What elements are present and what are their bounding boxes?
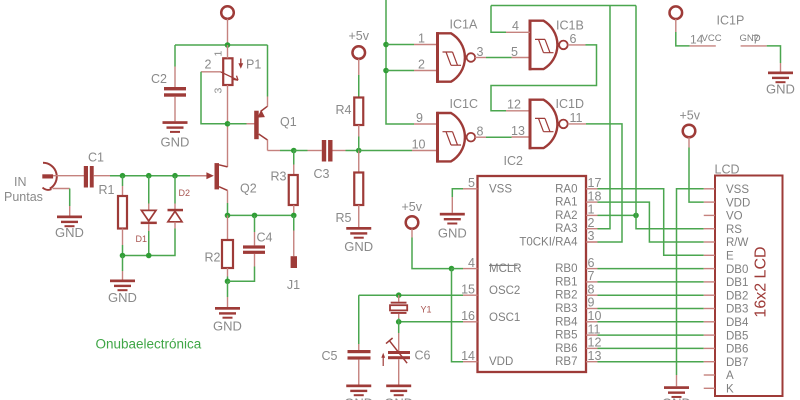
wire R4 to node <box>358 137 360 151</box>
pin IC1C input 10 <box>412 150 438 152</box>
junction diode node R1 <box>120 253 126 259</box>
connector X1 jack IN <box>42 163 56 190</box>
pin IC1P GND 7 <box>741 45 767 47</box>
wire D2 to node <box>123 229 176 256</box>
svg-text:8: 8 <box>588 282 595 296</box>
svg-text:VSS: VSS <box>726 184 749 196</box>
wire VSS to gnd <box>452 189 463 197</box>
pin IC1A input 1 <box>414 44 438 46</box>
pin R3 bottom <box>293 205 295 215</box>
wire RA2 branch <box>598 214 637 216</box>
wire bus to pin2 <box>386 70 414 72</box>
pin IC2 VDD 14 <box>463 361 478 363</box>
pin +5v MCLR <box>411 229 413 238</box>
svg-text:GND: GND <box>213 319 242 334</box>
pin R1 bottom <box>122 229 124 246</box>
wire MCLR net <box>412 238 452 269</box>
svg-text:A: A <box>726 370 734 382</box>
svg-text:3: 3 <box>588 229 595 243</box>
text LCD pin names <box>726 184 750 396</box>
svg-text:RA3: RA3 <box>555 223 577 235</box>
svg-text:R/W: R/W <box>726 237 749 249</box>
pin IC1B output 6 <box>568 44 586 46</box>
potentiometer P1 <box>221 58 239 85</box>
pin D1 bottom <box>148 224 150 231</box>
svg-text:VCC: VCC <box>702 33 722 44</box>
svg-text:13: 13 <box>511 124 525 138</box>
svg-text:DB5: DB5 <box>726 330 748 342</box>
wire RA1 to LCD R/W <box>598 202 704 242</box>
pin LCD A <box>704 374 715 376</box>
pin IC2 13 <box>586 361 598 363</box>
svg-text:3: 3 <box>477 45 484 59</box>
pin C4 top <box>254 232 256 245</box>
junction R4 node <box>356 148 362 154</box>
wire D2 drop <box>174 176 176 204</box>
svg-text:Onubaelectrónica: Onubaelectrónica <box>96 337 202 352</box>
diode D2 <box>168 209 184 222</box>
svg-text:OSC2: OSC2 <box>489 285 520 297</box>
svg-text:T0CKI/RA4: T0CKI/RA4 <box>519 237 578 249</box>
svg-text:5: 5 <box>468 176 475 190</box>
pin C3 right <box>333 150 346 152</box>
svg-text:R5: R5 <box>336 211 352 225</box>
pin P1 top <box>227 45 229 58</box>
pin LCD DB5 <box>704 334 715 336</box>
svg-text:DB4: DB4 <box>726 317 749 329</box>
pin LCD VO <box>704 214 715 216</box>
svg-text:RB7: RB7 <box>555 356 577 368</box>
capacitor C3 <box>322 140 333 162</box>
svg-text:16: 16 <box>461 309 475 323</box>
op-amp gate IC1A <box>437 32 476 83</box>
wire IC1B feedback loop <box>491 45 597 111</box>
svg-text:RB1: RB1 <box>555 276 577 288</box>
wire D1 to node <box>148 231 150 256</box>
pin R3 top <box>293 165 295 176</box>
op-amp gate IC1B <box>529 20 568 71</box>
svg-text:GND: GND <box>438 226 467 241</box>
label P1 with arrow <box>238 57 261 71</box>
pin IC2 3 <box>586 241 598 243</box>
pin IC2 7 <box>586 281 598 283</box>
svg-text:8: 8 <box>477 124 484 138</box>
svg-text:16x2 LCD: 16x2 LCD <box>753 246 770 317</box>
svg-text:1: 1 <box>213 51 225 57</box>
svg-text:DB7: DB7 <box>726 357 748 369</box>
wire C4 top drop <box>254 215 256 232</box>
wire C2 drop <box>174 45 176 67</box>
pin IC2 17 <box>586 188 598 190</box>
pin IC2 1 <box>586 214 598 216</box>
transistor Q2 <box>215 163 228 190</box>
svg-text:15: 15 <box>461 282 475 296</box>
resistor R1 <box>118 196 127 229</box>
pin IC2 OSC1 16 <box>463 321 478 323</box>
wire top net to LCD RS <box>636 6 704 229</box>
svg-text:P1: P1 <box>246 57 261 71</box>
pin R5 top <box>358 151 360 173</box>
wire OSC2 net <box>359 294 463 296</box>
wire RB1 to LCD DB1 <box>598 281 704 283</box>
junction R3 node <box>291 148 297 154</box>
ground GND C6 <box>384 385 413 400</box>
wire C3 to R4 node <box>346 150 359 152</box>
svg-text:RA1: RA1 <box>555 197 577 209</box>
svg-text:RB3: RB3 <box>555 303 577 315</box>
svg-text:+5v: +5v <box>402 200 423 214</box>
wire D1 drop <box>148 176 150 204</box>
pin IC2 VSS 5 <box>463 188 478 190</box>
svg-text:GND: GND <box>662 396 691 400</box>
pin IC2 10 <box>586 321 598 323</box>
wire gnd node down <box>227 281 229 297</box>
svg-text:IC1B: IC1B <box>556 19 584 33</box>
svg-text:GND: GND <box>344 396 373 400</box>
pin IC1P VCC 14 <box>690 45 716 47</box>
svg-text:J1: J1 <box>287 278 300 292</box>
capacitor C6 trimmer <box>381 338 410 366</box>
junction bus pin2 <box>383 68 389 74</box>
pin LCD DB1 <box>704 281 715 283</box>
pin C4 bottom <box>254 254 256 267</box>
svg-text:VO: VO <box>726 211 743 223</box>
svg-text:GND: GND <box>108 290 137 305</box>
pin Q1 collector horizontal <box>268 150 281 152</box>
pin +5v LCD <box>688 137 690 147</box>
wire RB3 to LCD DB3 <box>598 308 704 310</box>
wire RB0 to LCD DB0 <box>598 268 704 270</box>
capacitor C4 <box>243 245 265 254</box>
svg-text:18: 18 <box>588 189 602 203</box>
svg-text:GND: GND <box>344 239 373 254</box>
svg-text:RB5: RB5 <box>555 330 577 342</box>
pin gnd R2 <box>227 297 229 307</box>
wire C4 to gnd node <box>228 267 255 282</box>
svg-text:9: 9 <box>416 111 423 125</box>
junction input-D2 <box>172 173 178 179</box>
supply +5v IC1P <box>670 6 683 19</box>
pin J1 <box>293 231 295 257</box>
pin LCD DB0 <box>704 268 715 270</box>
wire top net <box>491 5 636 7</box>
svg-text:DB2: DB2 <box>726 290 748 302</box>
svg-text:6: 6 <box>588 256 595 270</box>
wire R1 drop <box>122 176 124 186</box>
wire crystal node <box>398 318 400 333</box>
svg-text:12: 12 <box>507 98 521 112</box>
capacitor C2 <box>164 87 186 97</box>
pin IC2 2 <box>586 228 598 230</box>
ground GND C2 <box>161 121 190 149</box>
ground GND IC2 VSS <box>438 213 467 241</box>
svg-text:Y1: Y1 <box>421 305 432 315</box>
resistor R5 <box>354 173 363 206</box>
svg-text:6: 6 <box>570 32 577 46</box>
svg-text:+5v: +5v <box>349 29 370 43</box>
pin IC2 18 <box>586 201 598 203</box>
op-amp gate IC1D <box>529 99 568 150</box>
wire RB5 to LCD DB5 <box>598 334 704 336</box>
junction gnd node <box>225 278 231 284</box>
pin IC1A output 3 <box>475 57 486 59</box>
pin R1 top <box>122 186 124 196</box>
wire RB7 to LCD DB7 <box>598 361 704 363</box>
pin LCD DB2 <box>704 294 715 296</box>
jumper J1 <box>291 256 297 268</box>
pin P1 bottom to Q2 collector <box>227 85 229 167</box>
wire C5 branch <box>358 295 360 344</box>
svg-text:VSS: VSS <box>489 183 512 195</box>
pin IC2 8 <box>586 294 598 296</box>
crystal Y1 <box>390 302 407 314</box>
wire RA0 to LCD E <box>598 189 704 256</box>
svg-text:C1: C1 <box>88 151 104 165</box>
svg-text:GND: GND <box>55 225 84 240</box>
svg-text:5: 5 <box>511 45 518 59</box>
pin IC2 6 <box>586 268 598 270</box>
pin Q1 collector <box>267 140 269 151</box>
pin IC2 MCLR 4 <box>463 268 478 270</box>
pin C6 top <box>398 333 400 351</box>
pin R2 bottom <box>227 268 229 277</box>
junction diode node D1 <box>146 253 152 259</box>
pin C6 bottom <box>398 359 400 384</box>
pin LCD DB7 <box>704 361 715 363</box>
pin C1 right <box>94 175 110 177</box>
wire node to gate pin10 <box>359 150 412 152</box>
pin LCD DB3 <box>704 308 715 310</box>
wire IC1B pin4 feed <box>491 6 506 33</box>
pin IC2 9 <box>586 308 598 310</box>
pin LCD RS <box>704 228 715 230</box>
wire node to ground <box>122 256 124 272</box>
svg-text:RB6: RB6 <box>555 343 577 355</box>
supply terminal top <box>221 6 234 19</box>
pin R2 top <box>227 215 229 240</box>
svg-text:+5v: +5v <box>680 109 701 123</box>
capacitor C5 <box>348 350 371 360</box>
ground GND R5 <box>344 227 373 254</box>
svg-text:C6: C6 <box>415 349 431 363</box>
ground GND LCD <box>662 386 691 400</box>
pin D2 top <box>174 204 176 210</box>
svg-text:13: 13 <box>588 349 602 363</box>
text IC2 left pin names <box>489 183 522 368</box>
wire IC1A out to IC1B in <box>486 57 512 59</box>
pin Y1 bottom <box>398 314 400 318</box>
junction OSC2 crystal <box>396 292 402 298</box>
pin IC1B input 4 <box>506 31 530 33</box>
svg-text:2: 2 <box>588 216 595 230</box>
svg-text:R1: R1 <box>99 183 115 197</box>
pin +5v IC1P <box>675 19 677 32</box>
ic IC2 box <box>478 176 587 372</box>
ground GND C5 <box>344 385 373 400</box>
svg-text:VDD: VDD <box>489 356 513 368</box>
wire to R3 node <box>280 150 294 152</box>
junction RA2 node <box>633 213 639 219</box>
pin R4 bottom <box>358 125 360 137</box>
pin R5 bottom <box>358 205 360 227</box>
pin IC1D input 13 <box>512 136 531 138</box>
pin IC1D input 12 <box>506 110 530 112</box>
svg-text:C4: C4 <box>257 230 273 244</box>
pin +5v R4 <box>358 59 360 75</box>
svg-text:Q1: Q1 <box>280 115 297 129</box>
svg-text:DB1: DB1 <box>726 277 748 289</box>
svg-text:10: 10 <box>412 137 426 151</box>
wire P1 wiper loop <box>201 72 228 124</box>
wire Q1 base <box>228 123 247 125</box>
pin gnd IC1P <box>780 63 782 72</box>
wire top rail y45 <box>175 44 268 46</box>
wire R3 drop <box>293 151 295 165</box>
svg-text:C2: C2 <box>151 72 167 86</box>
svg-text:Puntas: Puntas <box>4 190 43 204</box>
svg-text:7: 7 <box>753 33 760 47</box>
wire RB6 to LCD DB6 <box>598 347 704 349</box>
svg-text:IC1D: IC1D <box>556 97 584 111</box>
ground GND jack <box>55 216 84 241</box>
wire IC1D out to RA4 <box>586 124 622 242</box>
pin LCD K <box>704 387 715 389</box>
pin Y1 top <box>398 295 400 302</box>
wire R2 to gnd node <box>227 277 229 282</box>
pin IC2 12 <box>586 347 598 349</box>
pin IC1A input 2 <box>414 70 438 72</box>
svg-text:4: 4 <box>468 256 475 270</box>
pin C3 left <box>308 150 322 152</box>
svg-text:C3: C3 <box>314 167 330 181</box>
supply +5v MCLR <box>406 216 419 229</box>
pin LCD E <box>704 254 715 256</box>
svg-text:R2: R2 <box>205 250 221 264</box>
pin LCD VDD <box>704 201 715 203</box>
svg-text:K: K <box>726 384 734 396</box>
pin Q2 emitter <box>227 190 229 203</box>
wire RB4 to LCD DB4 <box>598 321 704 323</box>
pin IC2 OSC2 15 <box>463 294 478 296</box>
pin P1 wiper <box>201 71 221 73</box>
wire LCD VSS to gnd <box>677 189 704 375</box>
wire OSC1 net <box>399 321 463 323</box>
resistor R4 <box>354 98 363 126</box>
svg-text:IC1C: IC1C <box>450 97 478 111</box>
junction MCLR node <box>449 266 455 272</box>
svg-text:RA2: RA2 <box>555 210 577 222</box>
svg-text:9: 9 <box>588 296 595 310</box>
wire RA3 up <box>598 6 611 229</box>
junction node R2 <box>225 213 231 219</box>
pin gnd LCD <box>676 375 678 386</box>
svg-text:VDD: VDD <box>726 197 750 209</box>
pin IC1C output 8 <box>475 136 486 138</box>
svg-text:DB6: DB6 <box>726 344 748 356</box>
wire Q1 emitter to rail <box>267 45 269 97</box>
pin IC2 RA4 stub <box>586 241 598 243</box>
svg-text:RA0: RA0 <box>555 183 577 195</box>
svg-text:11: 11 <box>588 322 601 336</box>
svg-text:2: 2 <box>418 57 425 71</box>
ground GND IC1P <box>766 72 795 97</box>
svg-text:R3: R3 <box>271 169 287 183</box>
pin D1 top <box>148 204 150 211</box>
pin LCD R/W <box>704 241 715 243</box>
wire +5v to LCD VDD <box>689 148 704 203</box>
svg-text:2: 2 <box>205 57 212 71</box>
pin LCD DB6 <box>704 347 715 349</box>
pin jack sleeve <box>53 188 70 190</box>
pin gnd VSS <box>451 197 453 213</box>
pin jack tip <box>53 175 84 177</box>
wire C3 left <box>294 150 308 152</box>
svg-text:C5: C5 <box>322 349 338 363</box>
svg-text:1: 1 <box>418 31 425 45</box>
svg-text:GND: GND <box>766 82 795 97</box>
junction input-R1 <box>120 173 126 179</box>
junction node J1 <box>291 213 297 219</box>
text IC2 right pin names <box>519 183 578 368</box>
svg-text:R4: R4 <box>336 103 352 117</box>
svg-text:7: 7 <box>588 269 595 283</box>
svg-text:14: 14 <box>461 349 475 363</box>
wire Q2 emitter to node <box>227 203 229 215</box>
svg-text:LCD: LCD <box>715 163 740 177</box>
label IN Puntas <box>4 175 43 204</box>
svg-text:IC1P: IC1P <box>717 14 745 28</box>
junction P1 Q2 node <box>225 121 231 127</box>
wire MCLR node to VDD pin <box>452 269 464 362</box>
op-amp gate IC1C <box>437 112 476 163</box>
resistor R3 <box>289 175 298 205</box>
pin C5 top <box>358 344 360 350</box>
pin Q1 base <box>247 123 255 125</box>
pin LCD DB4 <box>704 321 715 323</box>
wire jack sleeve to ground <box>69 189 71 207</box>
svg-text:4: 4 <box>512 19 519 33</box>
svg-text:1: 1 <box>588 203 595 217</box>
pin gnd diode node <box>122 271 124 280</box>
svg-text:12: 12 <box>588 336 602 350</box>
svg-text:10: 10 <box>588 309 602 323</box>
wire R1 to node <box>122 245 124 256</box>
pin gnd jack <box>69 206 71 216</box>
supply +5v LCD <box>683 125 696 138</box>
svg-text:RB4: RB4 <box>555 316 578 328</box>
display LCD box <box>715 176 783 397</box>
wire IC1P VCC <box>676 32 690 46</box>
svg-text:RB2: RB2 <box>555 290 577 302</box>
junction bus pin1 <box>383 42 389 48</box>
ground GND R2 <box>213 307 242 334</box>
wire bus to pin1 <box>386 44 414 46</box>
svg-text:RB0: RB0 <box>555 263 577 275</box>
pin IC1C input 9 <box>414 123 438 125</box>
pin IC2 11 <box>586 334 598 336</box>
transistor Q1 <box>254 106 267 140</box>
supply +5v R4 <box>352 46 365 59</box>
junction OSC1 crystal <box>396 319 402 325</box>
junction node C4 <box>252 213 258 219</box>
svg-text:DB0: DB0 <box>726 264 748 276</box>
svg-text:GND: GND <box>384 396 413 400</box>
capacitor C1 <box>84 166 94 188</box>
wire MCLR to pin4 <box>452 268 464 270</box>
svg-text:IC1A: IC1A <box>450 18 478 32</box>
wire +5v to R4 <box>358 75 360 98</box>
ground GND diode node <box>108 280 137 306</box>
